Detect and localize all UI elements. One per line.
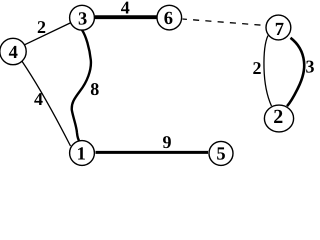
- svg-text:9: 9: [163, 132, 172, 152]
- svg-text:5: 5: [216, 145, 225, 165]
- edge 7-2 left curve (weight 2): [264, 36, 272, 107]
- node 7: [266, 15, 291, 40]
- node 2: [264, 105, 293, 132]
- node 4: [0, 38, 26, 64]
- weight label 8 (edge 3-1): [90, 79, 99, 99]
- edge 4-1 (weight 4): [22, 61, 71, 146]
- edge 1-5 (weight 9): [96, 151, 209, 154]
- svg-text:2: 2: [273, 106, 283, 128]
- svg-text:4: 4: [34, 89, 43, 109]
- svg-text:3: 3: [306, 56, 315, 76]
- weight label 9 (edge 1-5): [163, 132, 172, 152]
- edge 3-6 (weight 4): [95, 15, 157, 19]
- node 1: [70, 141, 95, 166]
- edge 6-7 dashed: [183, 19, 267, 26]
- weight label 2 (edge 4-3): [37, 17, 46, 37]
- weight label 3 (edge 7-2 right): [306, 56, 315, 76]
- svg-text:4: 4: [9, 43, 18, 63]
- svg-text:7: 7: [275, 20, 284, 40]
- weight label 2 (edge 7-2 left): [253, 58, 262, 78]
- svg-text:8: 8: [90, 79, 99, 99]
- weight label 4 (edge 3-6): [121, 0, 130, 18]
- edge 4-3 (weight 2): [22, 23, 71, 46]
- svg-text:1: 1: [77, 144, 86, 164]
- node 6: [157, 5, 182, 30]
- svg-text:3: 3: [78, 9, 87, 29]
- weight label 4 (edge 4-1): [34, 89, 43, 109]
- svg-text:6: 6: [164, 9, 173, 29]
- edge 3-1 wavy (weight 8): [72, 30, 91, 142]
- edge 7-2 right curve (weight 3): [287, 38, 304, 106]
- node 3: [70, 5, 95, 30]
- svg-text:2: 2: [253, 58, 262, 78]
- svg-text:4: 4: [121, 0, 130, 18]
- svg-text:2: 2: [37, 17, 46, 37]
- node 5: [209, 141, 233, 165]
